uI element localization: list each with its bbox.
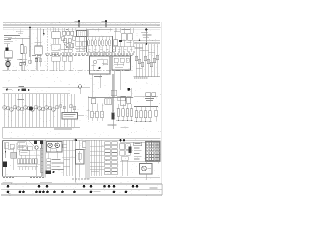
ignition coil box hatched (75, 31, 87, 53)
wire branch marks upper-left area (16, 30, 42, 56)
wire horizontal feed to gauge harness (3, 88, 91, 94)
wire drop with junction bottom center-left (75, 138, 77, 182)
solenoid box tall mid (76, 140, 85, 177)
wire right bottom connections (120, 142, 161, 163)
wire branch under control units (88, 70, 133, 101)
relay R1 main relay (35, 28, 43, 71)
resistor ladder far right (134, 107, 158, 123)
relay R4 small box (83, 141, 89, 150)
wire bottom table right edge (161, 184, 163, 195)
blower motor M1 with dual coils (47, 142, 63, 159)
label small text above harness (18, 97, 25, 100)
gauge G5 dark sender symbol (29, 107, 33, 111)
junction node main feed dot (29, 27, 31, 29)
sensor S3 drop at x30 (29, 57, 31, 64)
control unit box U1 (90, 56, 111, 74)
wire harness chain separator line (3, 70, 134, 72)
resistor bank right (116, 104, 133, 121)
relay boxes right of terminal strips (120, 144, 131, 177)
wire power bus B+ lines (3, 23, 160, 29)
wire harness bottom rail (3, 127, 81, 138)
ECU internal box with gray fill (11, 147, 17, 170)
wire vertical harness band center (86, 141, 89, 180)
wire battery ground lead (5, 58, 11, 71)
relay block R2 with terminals (51, 28, 60, 55)
label tiny text in table rows (8, 188, 158, 194)
capacitor C1 noise filter (6, 61, 10, 66)
diode and resistor cluster center (61, 28, 76, 56)
node row1 ground points (7, 185, 139, 188)
connector hatch line under right block (134, 77, 161, 79)
warning lamp assembly right of cluster (113, 28, 135, 52)
bottom hatch text rows under section (3, 177, 161, 183)
ignition distributor box with symbol (140, 161, 153, 180)
ECU right side junction dots (34, 141, 43, 176)
ECU terminal row hatched (18, 159, 39, 171)
wire main feed drop from bus (8, 28, 30, 57)
label text under bottom rail (54, 128, 72, 131)
sensor row boxes top (91, 97, 131, 106)
label under control unit U1 (94, 75, 102, 78)
node row2 ground points (7, 191, 128, 194)
wire bottom table line 2 (1, 189, 162, 191)
combination meter cluster box with lamp coils (86, 30, 113, 52)
wire vertical drops mid-bottom x60-74 (62, 141, 75, 177)
alternator branch wires with components (135, 39, 159, 76)
label column far right bottom (129, 142, 142, 159)
connector strip text row under upper section (45, 49, 135, 56)
wire bottom table line 3 (1, 194, 162, 196)
wire drop with arrow head (43, 29, 45, 36)
dark splice cluster bottom-left-mid (46, 171, 55, 175)
connector C9 cluster (134, 93, 158, 107)
transistor Q1 dark device (111, 74, 114, 129)
label rows with leader boxes mid-bottom (47, 159, 64, 172)
wire bottom center vertical group (90, 141, 104, 177)
sensor S2 small pair (17, 59, 26, 71)
wire ECU internal rails (16, 143, 40, 165)
resistor bank crosshatched left (91, 104, 104, 122)
junction node with fusible link arrow at top right-center (102, 20, 108, 27)
ECU dark connector blob (3, 162, 7, 177)
fuse F1 pair mid-left (20, 38, 28, 70)
terminal strip column A (105, 142, 111, 175)
wire stub drops from bus center (50, 28, 116, 32)
fuel pump symbol on feed line (78, 85, 81, 94)
junction node with fusible link arrow at top left-center (75, 20, 81, 27)
resistor pack lower-left of center (52, 56, 73, 71)
page border right edge (160, 22, 162, 196)
wire riser right of callout (87, 96, 90, 120)
label text mid right (108, 125, 129, 129)
wire vertical drops from U-boxes (88, 30, 121, 56)
ECU internal logic boxes (8, 141, 36, 159)
ECU internal arrow contact (5, 143, 7, 158)
junction dot right feed (145, 28, 147, 44)
battery terminal blob (5, 47, 8, 50)
label ignition switch text (4, 35, 20, 44)
wire bottom table line 1 (1, 183, 162, 185)
splice cluster mid band (18, 86, 30, 91)
sensor S1 with vertical leads left (35, 57, 42, 71)
wire vertical harness band left-mid (43, 141, 46, 178)
ground symbol G1 with lead (6, 89, 12, 91)
wire dashed harness boundary vertical (46, 28, 48, 70)
ECU tall side box with pin text (40, 148, 44, 172)
control unit box U2 (112, 56, 131, 70)
instrument harness vertical wires with gauge symbols (3, 94, 76, 127)
junction dots above terminal strips (119, 139, 125, 141)
ECU internal relay K1 (4, 143, 14, 149)
label box combination meter callout (62, 113, 84, 120)
battery BAT1 (5, 44, 13, 58)
connector pin grid bottom right (146, 142, 161, 162)
label alternator text right (141, 33, 152, 38)
wire sub-bus right block (134, 40, 160, 44)
wire bottom section top rails (3, 138, 161, 142)
terminal strip column B (112, 142, 118, 175)
ECU main box bottom left (3, 141, 43, 177)
